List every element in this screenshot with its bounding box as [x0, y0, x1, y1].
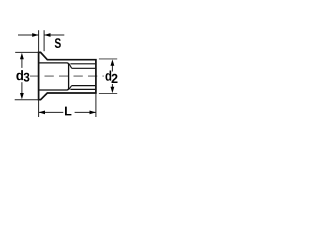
dim d3: down arrowhead: [20, 93, 24, 99]
outer profile of rivet nut: [39, 52, 96, 99]
thread chamfer bottom: [69, 86, 72, 90]
rivet nut technical drawing (countersunk head, section view): [0, 0, 150, 150]
dim L: right extension line (body end extended down): [95, 93, 97, 117]
dim S: right tail line: [44, 34, 64, 36]
label S: [55, 38, 61, 48]
dim L: right arrowhead: [90, 111, 96, 115]
dim d3: bottom extension line: [15, 99, 39, 101]
thread chamfer top: [69, 63, 72, 68]
label d3_d: [16, 70, 23, 80]
dim d2: bottom extension line: [99, 93, 117, 95]
dim d3: dimension line upper segment: [21, 59, 23, 68]
dim L: left arrowhead: [39, 111, 45, 115]
thread minor line top: [72, 67, 96, 69]
dim d3: top extension line: [15, 51, 38, 53]
thread minor line bottom: [72, 85, 96, 87]
counterbore lines with rounded step: [39, 63, 68, 90]
label L: [65, 107, 71, 116]
dim S: extension line 1 (head face extended up): [38, 30, 40, 52]
label d3_3: [24, 73, 30, 82]
dim d3: up arrowhead: [20, 53, 24, 59]
centerline (part axis): [30, 75, 104, 77]
dim L: left extension line (head face extended down): [38, 100, 40, 117]
dim d3: dimension line lower segment: [21, 82, 23, 93]
dim d2: up arrowhead: [111, 59, 115, 65]
dim d2: dimension line upper segment: [111, 65, 113, 72]
dim L: right line segment: [75, 111, 96, 113]
dim S: extension line 2: [43, 30, 45, 51]
dim S: right arrowhead: [44, 33, 50, 37]
label d2_d: [106, 71, 112, 81]
thread major line bottom: [70, 88, 95, 90]
dim d2: dimension line lower segment: [111, 84, 113, 88]
dim S: left tail line: [18, 34, 39, 36]
thread major line top: [70, 63, 95, 65]
dim d2: top extension line: [99, 58, 117, 60]
dim L: left line segment: [39, 111, 64, 113]
label d2_2: [112, 74, 118, 83]
dim S: left arrowhead: [32, 33, 38, 37]
dim d2: down arrowhead: [111, 87, 115, 93]
